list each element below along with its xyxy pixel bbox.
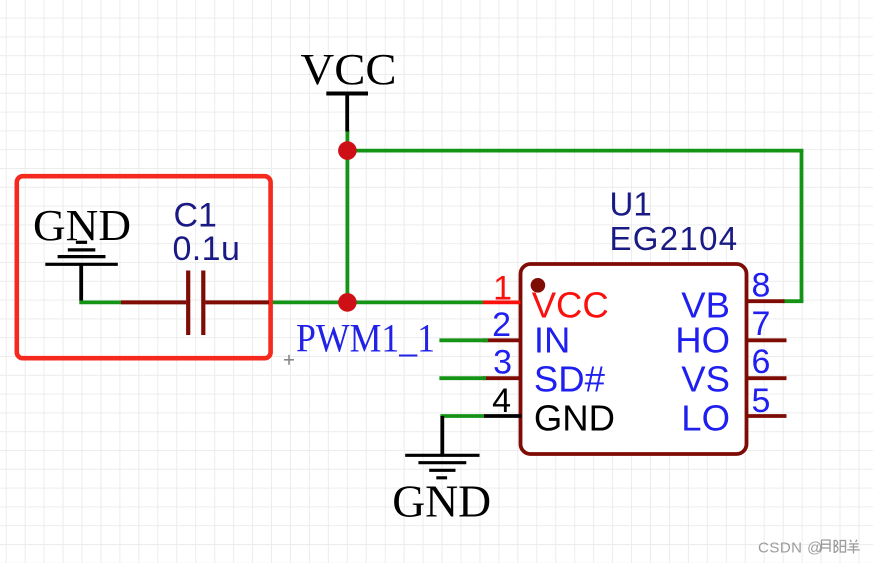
svg-text:CSDN @: CSDN @ (758, 540, 823, 557)
pin 8 stub (747, 299, 785, 303)
pin 6 stub (747, 376, 787, 380)
pin 5 stub (747, 414, 787, 418)
glyph 月 (820, 540, 831, 553)
svg-text:3: 3 (493, 344, 512, 382)
pin 4 stub (black) (484, 414, 522, 418)
label C1 value (173, 197, 241, 269)
svg-text:GND: GND (392, 476, 491, 527)
svg-text:2: 2 (492, 306, 511, 344)
watermark CSDN (758, 540, 860, 557)
pin 1 indicator dot (531, 278, 546, 293)
wire: green into pin 4 (440, 414, 483, 418)
svg-text:PWM1_1: PWM1_1 (296, 316, 435, 361)
capacitor C1 (121, 271, 269, 336)
pin 7 stub (747, 338, 787, 342)
op-amp U1 body (EG2104) (521, 264, 747, 454)
svg-text:0.1u: 0.1u (173, 230, 241, 268)
wire: green horizontal net from red box to pin 1 (269, 300, 483, 304)
svg-text:1: 1 (493, 269, 512, 307)
wire: green from ground to C1 (79, 300, 121, 304)
pin 3 stub (483, 376, 521, 380)
svg-text:EG2104: EG2104 (610, 220, 739, 257)
wire: green horizontal top rail from upper junction to right corner (347, 149, 803, 153)
svg-text:VCC: VCC (301, 45, 397, 94)
svg-text:C1: C1 (174, 197, 217, 235)
wire: green vertical right rail down to pin 8 (800, 151, 804, 302)
power symbol VCC bar (326, 94, 368, 132)
svg-text:4: 4 (492, 382, 511, 420)
pin 1 stub (highlighted red) (483, 300, 521, 304)
wire: green into pin 3 (439, 376, 486, 380)
svg-text:HO: HO (675, 319, 730, 360)
wire: green into pin 2 (439, 338, 488, 342)
svg-text:5: 5 (752, 382, 771, 420)
svg-text:7: 7 (752, 305, 771, 343)
ground symbol (inverted earth, in red box) (45, 242, 118, 300)
junction dot upper (338, 141, 357, 160)
ground symbol (bottom earth) (405, 455, 479, 478)
svg-text:LO: LO (681, 397, 730, 438)
svg-text:8: 8 (752, 267, 771, 305)
glyph 羊 (847, 540, 859, 554)
pin 2 stub (483, 338, 521, 342)
svg-text:SD#: SD# (534, 359, 606, 400)
svg-text:6: 6 (752, 343, 771, 381)
wire: black drop to ground (440, 416, 444, 455)
svg-text:VS: VS (681, 359, 730, 400)
junction dot lower (338, 293, 357, 312)
svg-text:U1: U1 (610, 186, 652, 223)
glyph 阳 (834, 540, 845, 553)
selection box (red) (17, 176, 271, 358)
svg-text:IN: IN (534, 319, 571, 360)
origin cross marker (284, 355, 294, 365)
wire: green segment into pin 8 stub (783, 299, 803, 303)
svg-text:GND: GND (534, 397, 615, 438)
wire: green vertical from VCC symbol to lower junction (345, 130, 349, 302)
